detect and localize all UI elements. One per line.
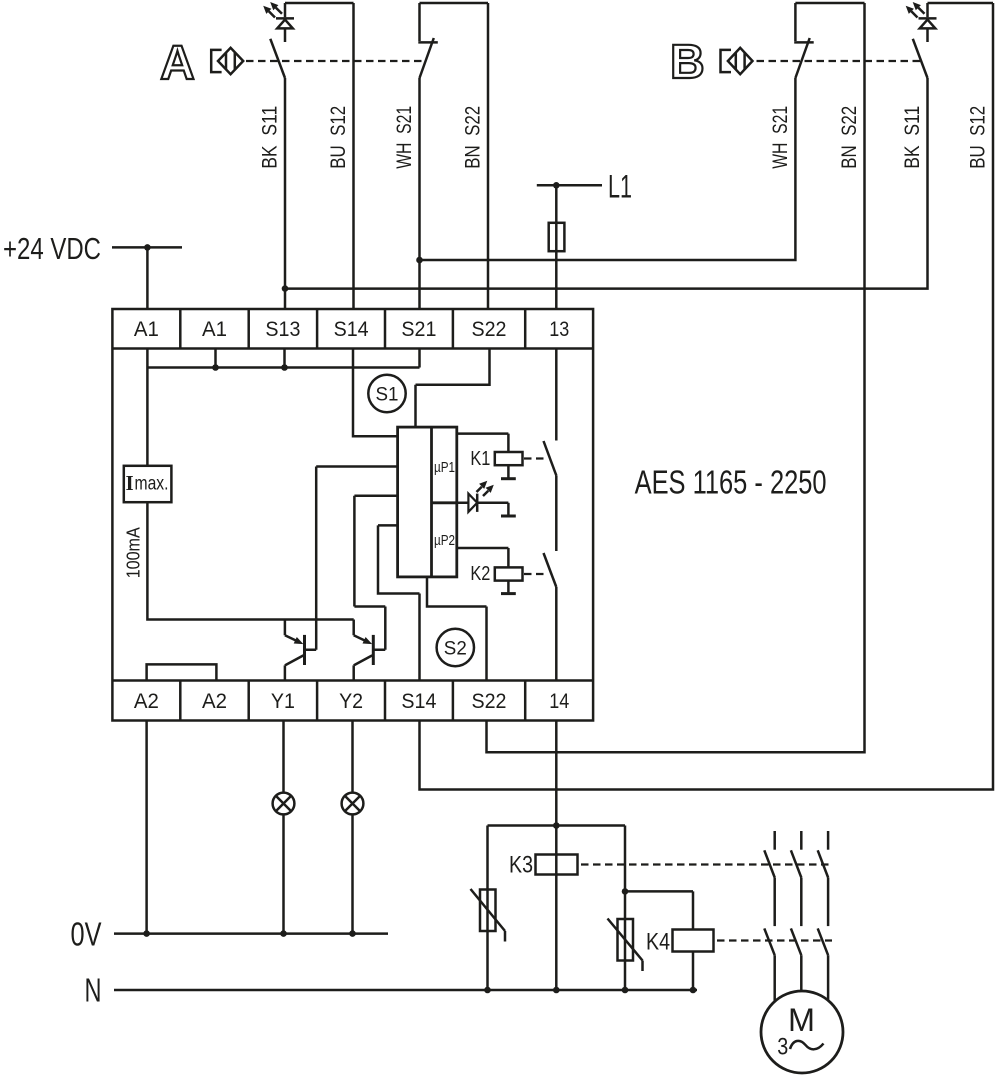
sensor B actuation dashed line xyxy=(757,60,922,62)
mechanical link K3 dashed xyxy=(581,863,832,865)
internal LED D3 xyxy=(457,481,509,512)
contact K3 phase 2 xyxy=(791,850,801,877)
svg-text:µP1: µP1 xyxy=(434,460,455,476)
wire K4 branch bar xyxy=(625,890,693,893)
svg-text:BN S22: BN S22 xyxy=(838,106,861,169)
node A2 on 0V xyxy=(143,930,150,937)
contact K3 phase 3 xyxy=(818,850,828,877)
wire lamp H1 to 0V xyxy=(282,814,285,933)
node junction S21 xyxy=(416,257,423,264)
svg-text:A2: A2 xyxy=(134,690,159,713)
wire K1 coil to ground xyxy=(507,465,510,477)
wire terminal S13 stub xyxy=(283,349,286,368)
microprocessor U1 box xyxy=(398,427,457,577)
phase line 1 feed xyxy=(773,831,776,850)
wire BU S12 sensor A down to terminal S14 xyxy=(352,3,355,309)
relay K4 coil xyxy=(673,930,714,952)
node K4 branch junction xyxy=(622,888,629,895)
mechanical link K1 dashed xyxy=(524,457,544,459)
wire varistor RV1 branch xyxy=(486,826,489,991)
svg-text:S2: S2 xyxy=(444,638,467,660)
varistor RV1 xyxy=(471,889,506,942)
svg-text:0V: 0V xyxy=(71,916,102,953)
wire top rail sensor A pair2 xyxy=(420,2,489,5)
svg-text:S14: S14 xyxy=(334,318,369,341)
svg-text:14: 14 xyxy=(549,690,569,713)
transistor Q2 bar xyxy=(372,635,375,665)
LED D1 on sensor A S11 xyxy=(263,2,294,42)
wire +24VDC lead xyxy=(112,246,182,249)
svg-text:13: 13 xyxy=(549,318,569,341)
relay K1 coil xyxy=(495,452,523,465)
wire phase 3 mid xyxy=(827,878,830,927)
wire K2 coil to ground xyxy=(507,581,510,593)
wire terminal Y2 down xyxy=(351,721,354,793)
motor M1 circle xyxy=(761,991,843,1073)
transistor Q1 bar xyxy=(303,635,306,665)
contact K4 phase 3 xyxy=(818,928,828,955)
contact S21 sensor A (NC) arm xyxy=(420,38,434,78)
wire LED to ground xyxy=(507,503,510,515)
svg-text:S22: S22 xyxy=(472,690,507,713)
wire between contacts K1 and K2 xyxy=(555,475,558,551)
indicator S1 circle xyxy=(368,375,405,412)
wire terminal S21 stub to rail xyxy=(418,349,421,368)
svg-text:+24 VDC: +24 VDC xyxy=(3,231,101,266)
relay K2 coil feed wire xyxy=(457,548,509,567)
mechanical link K4 dashed xyxy=(717,939,832,941)
jumper link A2-A2 xyxy=(147,664,217,680)
node L1 junction xyxy=(553,182,560,189)
terminal row bottom separator xyxy=(112,679,593,682)
wire phase 3 to motor xyxy=(827,955,830,1000)
svg-text:WH S21: WH S21 xyxy=(769,106,792,169)
node +24VDC junction xyxy=(144,244,151,251)
lamp H1 xyxy=(273,793,295,815)
svg-text:BU S12: BU S12 xyxy=(327,106,350,169)
wire lamp H2 to 0V xyxy=(351,814,354,933)
indicator S2 circle xyxy=(437,629,474,666)
contact S21 sensor B (NC) seat bar xyxy=(794,41,814,44)
wire terminal A2 down to 0V xyxy=(145,721,148,934)
svg-text:S1: S1 xyxy=(376,384,399,406)
LED D2 on sensor B S11 xyxy=(906,2,937,42)
wire terminal Y1 down xyxy=(282,721,285,793)
wire terminal A1-1 down through rail to Imax xyxy=(146,349,149,466)
wire WH S21 sensor A upper xyxy=(418,3,421,41)
wire L1 lead xyxy=(537,184,602,187)
svg-text:S22: S22 xyxy=(472,318,507,341)
svg-text:B: B xyxy=(670,36,705,89)
wire K4 branch down xyxy=(624,826,627,991)
svg-text:A: A xyxy=(160,37,195,90)
motor tilde wave xyxy=(790,1041,824,1049)
wire phase 1 to motor xyxy=(773,955,776,1001)
terminal dividers top row xyxy=(180,309,525,349)
svg-text:N: N xyxy=(85,972,102,1009)
phase line 3 feed xyxy=(827,831,830,850)
transistor Q1 emitter to terminal Y1 xyxy=(285,655,304,680)
wire top rail sensor A pair1 xyxy=(285,2,354,5)
node RV1 on N xyxy=(484,987,491,994)
contact S11 sensor B (NO) xyxy=(913,39,928,78)
contact K3 phase 1 xyxy=(764,850,774,877)
node K4 on N xyxy=(690,987,697,994)
wire WH S21 sensor B down and across to S21 junction xyxy=(420,78,796,260)
sensor A actuator bracket xyxy=(211,50,221,72)
svg-text:max.: max. xyxy=(135,474,169,495)
contact K4 phase 2 xyxy=(791,928,801,955)
wire microprocessor to bottom terminal S14 xyxy=(378,525,420,680)
svg-text:BU S12: BU S12 xyxy=(966,106,989,169)
node 14 branch junction xyxy=(553,822,560,829)
wire N line xyxy=(114,989,697,992)
wire BK S11 sensor B down and across to S13 junction xyxy=(285,78,928,289)
node RV2 on N xyxy=(622,987,629,994)
node rail S13 xyxy=(281,364,288,371)
wire BN S22 sensor A down to terminal S22 xyxy=(487,3,490,309)
transistor Q2 base lead xyxy=(354,620,367,642)
wire internal supply rail xyxy=(147,366,419,369)
sensor A proximity switch diamond xyxy=(218,48,243,74)
svg-text:100mA: 100mA xyxy=(124,527,144,578)
svg-text:S21: S21 xyxy=(401,318,436,341)
svg-text:L1: L1 xyxy=(608,168,632,204)
svg-text:Y1: Y1 xyxy=(271,690,295,713)
svg-text:K1: K1 xyxy=(470,448,490,470)
svg-text:K3: K3 xyxy=(509,852,533,879)
wire terminal A1-2 stub xyxy=(214,349,217,368)
wire WH S21 sensor A down to terminal S21 xyxy=(418,78,421,309)
wire phase 1 mid xyxy=(773,878,776,927)
transistor Q1 collector xyxy=(305,467,398,650)
sensor A actuation dashed line xyxy=(246,60,424,62)
wire phase 2 to motor xyxy=(800,955,803,991)
relay K1 coil feed wire xyxy=(457,434,509,452)
node K3 on N xyxy=(553,987,560,994)
wire microprocessor bottom to bottom terminal S22 xyxy=(427,577,487,681)
wire Imax down to transistor base rail xyxy=(147,502,353,619)
wire terminal 14 down to K3 branch xyxy=(555,721,558,991)
contact K1 (NO) arm xyxy=(544,441,557,475)
transistor Q1 base lead xyxy=(285,620,298,642)
fuse F1 xyxy=(549,223,565,251)
mechanical link K2 dashed xyxy=(524,573,544,575)
wire top rail sensor B pair2 xyxy=(928,2,994,5)
wire L1 down to terminal 13 xyxy=(555,185,558,309)
relay module AES outline box xyxy=(112,309,593,721)
svg-text:S14: S14 xyxy=(401,690,436,713)
terminal row top separator xyxy=(112,347,593,350)
svg-text:A2: A2 xyxy=(202,690,227,713)
wire contact K2 down to terminal 14 xyxy=(555,587,558,681)
node Y2 on 0V xyxy=(349,930,356,937)
phase line 2 feed xyxy=(800,831,803,850)
wire terminal S22 to microprocessor top xyxy=(416,349,490,428)
sensor B proximity switch diamond xyxy=(728,48,753,74)
wire terminal 13 down to contact K1 xyxy=(555,349,558,441)
svg-text:I: I xyxy=(126,471,134,495)
contact S11 sensor A (NO) xyxy=(270,39,285,78)
wire terminal S14 to microprocessor xyxy=(353,349,398,437)
node junction S13/BK xyxy=(282,285,289,292)
svg-text:K2: K2 xyxy=(470,563,490,585)
wire K4 coil branch xyxy=(692,891,695,990)
relay K2 coil xyxy=(495,567,523,580)
node rail A1-2 xyxy=(212,364,219,371)
node Y1 on 0V xyxy=(280,930,287,937)
svg-text:BN S22: BN S22 xyxy=(462,106,485,169)
svg-text:S13: S13 xyxy=(265,318,300,341)
svg-text:BK S11: BK S11 xyxy=(901,106,924,169)
svg-text:Y2: Y2 xyxy=(339,690,363,713)
ground K1 xyxy=(501,477,516,480)
contact K4 phase 1 xyxy=(764,928,774,955)
varistor RV2 xyxy=(608,919,643,972)
svg-text:M: M xyxy=(788,1002,815,1038)
wire K3 branch bar xyxy=(488,824,626,827)
contact S21 sensor B (NC) arm xyxy=(795,38,809,78)
wire WH S21 sensor B upper xyxy=(794,3,797,41)
transistor Q1 base arrowhead xyxy=(294,637,304,644)
svg-text:AES 1165 - 2250: AES 1165 - 2250 xyxy=(635,464,827,501)
svg-text:3: 3 xyxy=(777,1033,788,1060)
transistor Q2 collector xyxy=(354,496,397,650)
wire 0V line xyxy=(114,932,388,935)
svg-text:BK S11: BK S11 xyxy=(259,106,282,169)
svg-text:A1: A1 xyxy=(134,318,159,341)
svg-text:A1: A1 xyxy=(202,318,227,341)
relay K3 coil xyxy=(536,855,578,875)
ground K2 xyxy=(501,592,516,595)
wire +24VDC down to terminal A1 xyxy=(146,247,149,309)
lamp H2 xyxy=(342,793,364,815)
contact K2 (NO) arm xyxy=(544,553,557,587)
microprocessor U1 divider xyxy=(432,427,457,577)
svg-text:K4: K4 xyxy=(646,929,670,956)
transistor Q2 emitter to terminal Y2 xyxy=(354,655,373,680)
terminal dividers bottom row xyxy=(180,681,525,721)
sensor B actuator bracket xyxy=(721,50,732,72)
wire BN S22 sensor B down and across to bottom terminal S22 xyxy=(487,3,865,752)
wire BU S12 sensor B down and across to bottom terminal S14 xyxy=(420,3,994,790)
ground LED xyxy=(501,515,516,518)
svg-text:µP2: µP2 xyxy=(434,533,455,549)
svg-text:WH S21: WH S21 xyxy=(393,106,416,169)
transistor Q2 base arrowhead xyxy=(363,637,373,644)
wire phase 2 mid xyxy=(800,878,803,927)
current limiter Imax box xyxy=(124,466,172,502)
wire top rail sensor B pair1 xyxy=(795,2,864,5)
contact S21 sensor A (NC) seat bar xyxy=(418,41,438,44)
wire BK S11 sensor A down to terminal S13 xyxy=(284,78,287,309)
